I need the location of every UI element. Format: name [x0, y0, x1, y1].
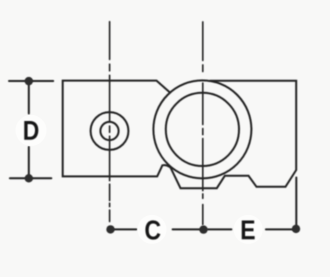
- dimension D vertical line upper: [28, 81, 30, 114]
- set screw outer circle: [91, 112, 129, 150]
- socket outer circle: [153, 80, 251, 178]
- dot C left: [106, 225, 114, 233]
- label C: [145, 220, 160, 239]
- label badge E: [234, 215, 263, 244]
- dot D top: [25, 77, 33, 85]
- dimension D top tick line: [9, 80, 53, 82]
- label E: [242, 220, 255, 239]
- centerline vertical left (x=109.6): [109, 22, 111, 222]
- extension line right edge to dim: [295, 178, 297, 229]
- fitting body outline right block with bottom lug and notch: [171, 81, 297, 189]
- dimension line E segment 1: [208, 228, 232, 230]
- dimension line E segment 2: [266, 228, 296, 230]
- set screw inner circle: [100, 122, 118, 140]
- label D: [24, 121, 38, 140]
- dot D bottom: [25, 174, 33, 182]
- dimension D vertical line lower: [28, 147, 30, 178]
- label badge D: [16, 115, 47, 146]
- dot C/E middle: [199, 225, 207, 233]
- dimension line C segment 1: [111, 228, 137, 230]
- centerline vertical right (x=202.8): [202, 22, 204, 225]
- dot E right: [292, 225, 300, 233]
- fitting body outline left block with chamfers: [63, 81, 171, 177]
- socket inner circle: [166, 93, 239, 166]
- label badge C: [138, 215, 167, 244]
- dimension line C segment 2: [173, 228, 204, 230]
- dimension D bottom tick line: [10, 177, 51, 179]
